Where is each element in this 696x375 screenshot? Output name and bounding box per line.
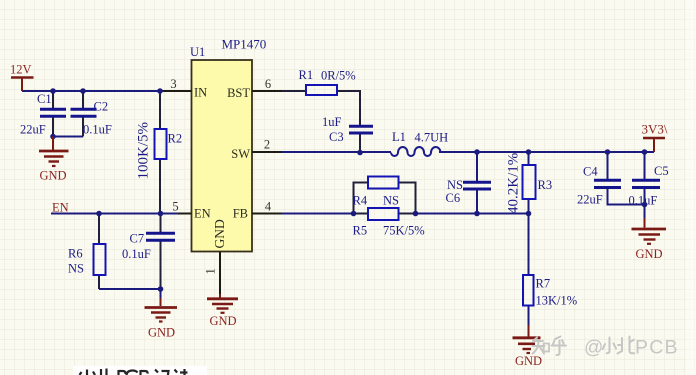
svg-text:C5: C5 [654, 164, 669, 178]
svg-text:FB: FB [233, 207, 248, 221]
svg-text:C1: C1 [37, 92, 52, 106]
svg-text:NS: NS [447, 178, 463, 192]
svg-text:GND: GND [515, 354, 542, 368]
svg-text:SW: SW [231, 147, 250, 161]
svg-text:GND: GND [209, 314, 236, 328]
svg-text:U1: U1 [190, 45, 205, 59]
svg-text:R7: R7 [536, 277, 551, 291]
svg-text:40.2K/1%: 40.2K/1% [506, 153, 522, 214]
svg-text:GND: GND [212, 219, 227, 248]
svg-text:3: 3 [170, 77, 176, 91]
svg-text:C3: C3 [329, 130, 344, 144]
svg-text:NS: NS [68, 262, 84, 276]
svg-text:EN: EN [52, 201, 69, 215]
svg-text:GND: GND [635, 247, 662, 261]
svg-text:BST: BST [227, 86, 250, 100]
svg-text:0.1uF: 0.1uF [629, 194, 658, 208]
svg-text:75K/5%: 75K/5% [383, 224, 425, 238]
svg-text:EN: EN [194, 207, 211, 221]
svg-text:2: 2 [264, 138, 270, 152]
svg-text:R1: R1 [299, 68, 314, 82]
svg-text:13K/1%: 13K/1% [536, 294, 578, 308]
svg-text:3V3\: 3V3\ [642, 122, 668, 137]
svg-text:GND: GND [148, 326, 175, 340]
svg-text:MP1470: MP1470 [222, 37, 267, 52]
svg-text:22uF: 22uF [20, 123, 46, 137]
svg-text:1: 1 [204, 268, 218, 274]
svg-text:NS: NS [383, 194, 399, 208]
svg-text:GND: GND [39, 169, 66, 183]
svg-text:6: 6 [265, 77, 271, 91]
svg-text:R3: R3 [538, 178, 553, 192]
svg-text:12V: 12V [10, 63, 32, 77]
svg-text:C6: C6 [446, 191, 461, 205]
svg-text:0.1uF: 0.1uF [122, 247, 151, 261]
svg-text:5: 5 [172, 200, 178, 214]
svg-text:4.7UH: 4.7UH [415, 131, 449, 145]
svg-text:C4: C4 [583, 165, 598, 179]
svg-text:22uF: 22uF [577, 193, 603, 207]
svg-text:0R/5%: 0R/5% [321, 69, 356, 83]
svg-text:0.1uF: 0.1uF [83, 123, 112, 137]
svg-text:1uF: 1uF [322, 115, 342, 129]
svg-text:R2: R2 [168, 132, 183, 146]
svg-text:C7: C7 [130, 232, 145, 246]
svg-text:@: @ [584, 338, 603, 359]
svg-text:100K/5%: 100K/5% [136, 122, 152, 180]
svg-text:L1: L1 [392, 130, 406, 144]
svg-text:R5: R5 [353, 224, 368, 238]
svg-text:C2: C2 [94, 100, 109, 114]
svg-text:4: 4 [265, 200, 272, 214]
svg-text:IN: IN [194, 86, 207, 100]
svg-text:R4: R4 [353, 194, 368, 208]
svg-text:PCB: PCB [635, 337, 679, 359]
svg-text:R6: R6 [68, 247, 83, 261]
